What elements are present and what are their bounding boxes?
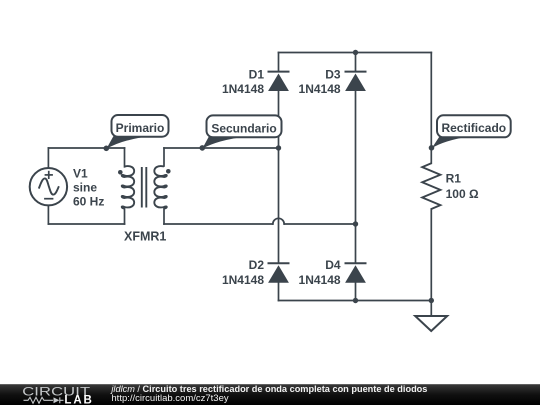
svg-text:1N4148: 1N4148: [299, 82, 341, 96]
wire secondary top: [164, 147, 279, 149]
svg-text:XFMR1: XFMR1: [124, 229, 166, 243]
wire top rail: [279, 52, 432, 54]
svg-text:V1: V1: [73, 166, 88, 180]
wire D1 anode to mid junction: [278, 91, 280, 148]
wire primary coil top lead: [124, 148, 126, 167]
svg-text:1N4148: 1N4148: [222, 82, 264, 96]
svg-text:Secundario: Secundario: [211, 121, 276, 135]
node junction dot secondary-top / D1 column: [276, 145, 281, 150]
node flag Primario pointer: [106, 136, 151, 149]
core: [141, 167, 143, 208]
wire D4 anode to bottom rail: [355, 282, 357, 300]
label D1: [222, 67, 264, 96]
resistor R1: [422, 163, 440, 209]
svg-text:D3: D3: [325, 67, 341, 81]
diode D4: [345, 263, 367, 282]
wire secondary bottom left of hop: [164, 223, 273, 225]
node flag Secundario pointer: [202, 137, 246, 149]
wire secondary bottom right of hop: [284, 223, 355, 225]
node flag Secundario box: [207, 115, 282, 137]
svg-text:D4: D4: [325, 258, 341, 272]
svg-text:Primario: Primario: [116, 121, 165, 135]
wire D2 anode to bottom rail corner: [278, 282, 280, 300]
svg-text:Rectificado: Rectificado: [441, 121, 506, 135]
node flag Rectificado box: [437, 115, 511, 137]
wire secondary coil bottom lead: [163, 209, 165, 225]
node junction dot top rail / D3 column: [353, 50, 358, 55]
label V1 value: [73, 166, 104, 208]
node flag Rectificado dot: [429, 145, 435, 151]
wire primary bottom: [48, 223, 124, 225]
phase dot primary: [118, 170, 123, 175]
wire bottom rail: [279, 300, 432, 302]
wire secondary coil top lead: [163, 148, 165, 166]
wire ground lead: [430, 301, 432, 317]
svg-text:D2: D2: [249, 258, 265, 272]
node flag Primario box: [112, 115, 169, 137]
wire primary left vertical bottom: [47, 206, 49, 225]
svg-text:R1: R1: [446, 171, 462, 185]
node junction dot bottom rail / ground: [429, 298, 434, 303]
svg-text:D1: D1: [249, 67, 265, 81]
wire right column top: [430, 53, 432, 164]
label D4: [299, 258, 341, 287]
label D2: [222, 258, 264, 287]
svg-text:1N4148: 1N4148: [299, 273, 341, 287]
svg-text:sine: sine: [73, 181, 97, 195]
secondary winding: [154, 166, 166, 208]
wire hop over D1-D2 column: [273, 218, 284, 224]
wire primary coil bottom lead: [124, 208, 126, 224]
wire junction to D4 cathode: [355, 224, 357, 263]
node junction dot bottom rail / D4 column: [353, 298, 358, 303]
ground: [415, 316, 447, 331]
node flag Rectificado pointer: [432, 137, 468, 149]
diode D2: [268, 263, 290, 282]
svg-text:100 Ω: 100 Ω: [446, 187, 479, 201]
wire primary left vertical top: [47, 148, 49, 168]
wire D1 top lead: [278, 53, 280, 72]
node flag Primario dot: [104, 146, 110, 152]
footer logo zigzag and diode: [24, 397, 64, 403]
transformer XFMR1: [122, 166, 167, 208]
wire primary top: [48, 147, 124, 149]
node flag Secundario dot: [200, 145, 206, 151]
wire mid junction to D2 cathode: [278, 148, 280, 263]
svg-text:http://circuitlab.com/cz7t3ey: http://circuitlab.com/cz7t3ey: [111, 393, 228, 404]
svg-text:1N4148: 1N4148: [222, 273, 264, 287]
wire D3 top lead: [355, 53, 357, 72]
label D3: [299, 67, 341, 96]
phase dot secondary: [166, 169, 171, 174]
diode D1: [268, 72, 290, 91]
node junction dot secondary-bottom / D3 column: [353, 221, 358, 226]
label R1 value: [446, 171, 479, 201]
svg-text:60 Hz: 60 Hz: [73, 195, 104, 209]
wire D3 anode to bottom-wire junction: [355, 91, 357, 224]
primary winding: [122, 166, 134, 208]
wire R1 bottom lead: [430, 209, 432, 301]
diode D3: [345, 72, 367, 91]
svg-text:LAB: LAB: [64, 394, 93, 405]
voltage source V1: [30, 168, 67, 205]
